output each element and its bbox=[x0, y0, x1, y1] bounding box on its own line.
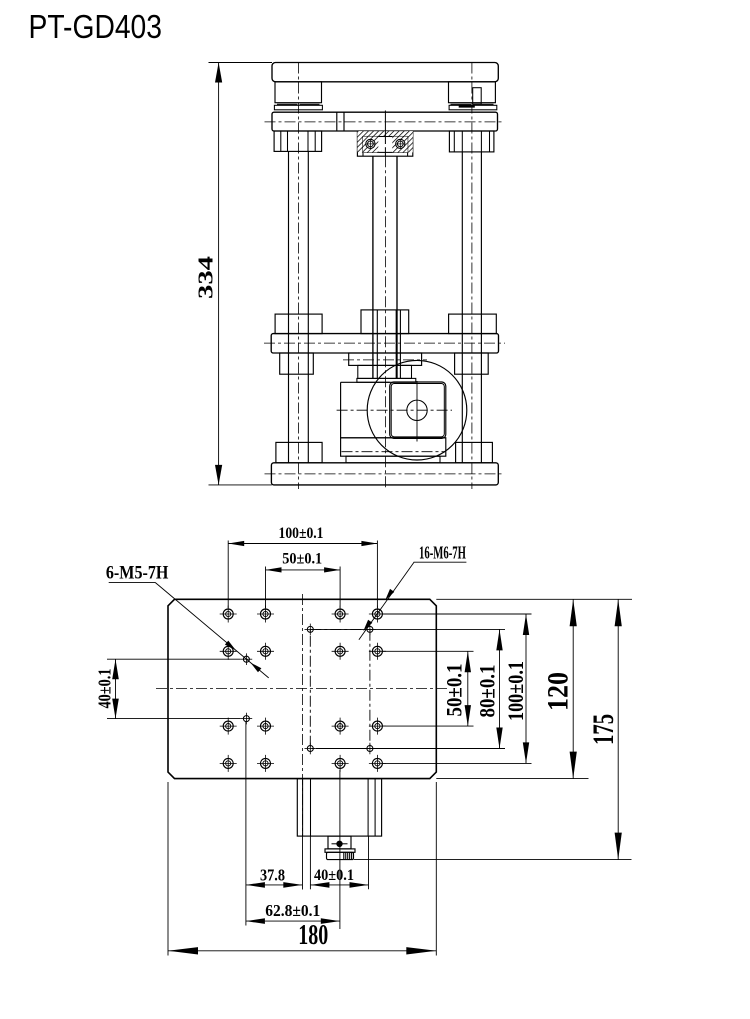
right washer strip bbox=[451, 103, 472, 105]
right clamp block bbox=[449, 131, 494, 152]
plan view base plate bbox=[168, 599, 436, 778]
top plate bbox=[272, 63, 498, 82]
right rod nut block bbox=[449, 314, 497, 334]
svg-text:6-M5-7H: 6-M5-7H bbox=[106, 564, 169, 584]
screw nut bore line bbox=[399, 310, 401, 379]
motor vertical centerline bbox=[416, 381, 418, 442]
svg-text:37.8: 37.8 bbox=[260, 865, 285, 884]
plan horizontal centerline bbox=[156, 688, 448, 690]
motor shaft circle bbox=[407, 400, 427, 420]
right block key notch bbox=[473, 88, 482, 104]
lead screw centerline solid upper bbox=[384, 111, 386, 157]
dimension 50 top extension lines bbox=[265, 567, 267, 609]
motor horizontal centerline bbox=[337, 409, 452, 411]
svg-text:50±0.1: 50±0.1 bbox=[441, 664, 466, 717]
motor mount centerline bbox=[342, 451, 446, 453]
right strip cap line bbox=[459, 105, 475, 108]
dimension 100 top line bbox=[228, 543, 377, 545]
svg-text:40±0.1: 40±0.1 bbox=[94, 669, 114, 709]
right bearing bbox=[396, 139, 405, 148]
motor mount base bbox=[346, 456, 440, 463]
bottom plate centerline bbox=[265, 473, 505, 475]
6 M5 mounting holes bbox=[243, 656, 249, 662]
plan vertical centerline bbox=[302, 594, 304, 836]
platform plate bbox=[272, 112, 498, 131]
right guide rod bbox=[461, 152, 463, 463]
right lower clamp block bbox=[455, 353, 489, 374]
svg-text:180: 180 bbox=[298, 920, 328, 951]
motor square flange bbox=[390, 382, 446, 438]
svg-text:334: 334 bbox=[194, 255, 218, 299]
motor shaft neck bbox=[328, 836, 351, 849]
svg-text:100±0.1: 100±0.1 bbox=[279, 525, 324, 542]
dimension 100 top extension lines bbox=[227, 541, 229, 609]
right extension lines bbox=[436, 598, 632, 600]
platform plate joint lines bbox=[336, 112, 338, 131]
middle plate centerline bbox=[264, 342, 505, 344]
dimension 120 line bbox=[572, 599, 574, 778]
motor vertical centerline plan bbox=[339, 770, 341, 929]
right upper strip bbox=[449, 105, 497, 110]
left guide rod bbox=[288, 151, 290, 462]
left clamp block bbox=[274, 131, 322, 151]
lead screw shaft bbox=[372, 156, 374, 378]
bottom plate bbox=[271, 463, 498, 485]
shaft dot bbox=[337, 841, 342, 846]
hidden motor outline dashed rectangle bbox=[310, 629, 370, 748]
left rod nut block bbox=[275, 314, 322, 334]
motor top plate bbox=[357, 378, 416, 382]
right spacer block under top plate bbox=[449, 82, 496, 103]
dimension 100 right line bbox=[525, 614, 527, 763]
lead screw centerline bbox=[384, 156, 386, 489]
front view: top extension line bbox=[209, 62, 273, 64]
motor face circle bbox=[367, 360, 467, 460]
leader line 6-M5-7H bbox=[109, 581, 155, 583]
right foot block bbox=[456, 442, 493, 462]
dimension 180 line bbox=[168, 950, 436, 952]
right guide rod centerline bbox=[471, 63, 473, 490]
front view: bottom extension line bbox=[209, 484, 272, 486]
dimension 40 left line bbox=[115, 659, 117, 718]
motor body bbox=[340, 382, 342, 438]
dimension 175 line bbox=[617, 599, 619, 859]
svg-text:40±0.1: 40±0.1 bbox=[314, 867, 354, 884]
svg-text:120: 120 bbox=[542, 672, 575, 711]
centerline extension below housing bbox=[302, 836, 304, 889]
svg-text:80±0.1: 80±0.1 bbox=[474, 665, 499, 718]
motor mount bracket bbox=[341, 438, 446, 456]
left washer strip bbox=[277, 103, 298, 105]
left spacer block under top plate bbox=[275, 82, 322, 103]
svg-text:16-M6-7H: 16-M6-7H bbox=[419, 543, 466, 563]
svg-text:50±0.1: 50±0.1 bbox=[282, 551, 322, 568]
svg-text:PT-GD403: PT-GD403 bbox=[29, 8, 163, 45]
coupling adapter bbox=[358, 365, 412, 378]
middle plate bbox=[271, 334, 498, 353]
16 M6 mounting holes bbox=[223, 609, 233, 619]
dimension 80 right line bbox=[499, 629, 501, 748]
bearing housing hatched block bbox=[357, 131, 412, 156]
dimension 62.8 line bbox=[246, 920, 340, 922]
motor housing plan outline bbox=[297, 779, 381, 837]
bottom extension lines bbox=[245, 722, 247, 926]
left bearing bbox=[366, 139, 375, 148]
dimension 40 left extension lines bbox=[107, 658, 241, 660]
lead screw thread root lines bbox=[376, 310, 378, 379]
left guide rod centerline bbox=[297, 63, 299, 490]
screw nut block bbox=[361, 310, 409, 334]
leader line 16-M6-7H bbox=[414, 561, 467, 563]
dimension 40 bottom line bbox=[310, 884, 368, 886]
svg-text:175: 175 bbox=[587, 714, 620, 745]
knob flange bbox=[325, 849, 355, 852]
platform plate centerline bbox=[265, 121, 504, 123]
dimension 37.8 line bbox=[246, 884, 302, 886]
bearing block bottom lip bbox=[362, 152, 364, 156]
bearing inner cavity bbox=[363, 137, 408, 153]
left lower clamp block bbox=[280, 353, 314, 374]
left foot block bbox=[276, 442, 322, 462]
screw flange bbox=[349, 353, 422, 365]
svg-text:100±0.1: 100±0.1 bbox=[503, 661, 528, 721]
svg-text:62.8±0.1: 62.8±0.1 bbox=[265, 901, 320, 920]
dimension 334 line bbox=[218, 63, 220, 485]
left upper strip bbox=[274, 105, 322, 110]
dimension 50 top line bbox=[266, 569, 341, 571]
knob body with knurling bbox=[327, 852, 354, 859]
dimension 50 right line bbox=[467, 651, 469, 726]
